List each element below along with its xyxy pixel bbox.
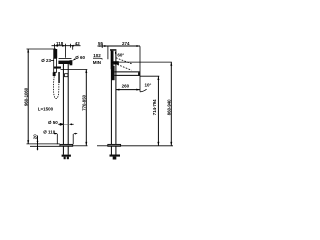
tick at x54.5 + ext to head — [54, 44, 56, 50]
holder bracket (dark) — [54, 67, 61, 69]
10 deg arc — [140, 89, 147, 92]
svg-text:Ø 50: Ø 50 — [48, 120, 58, 125]
arrow right of 118 / left outside of 42 — [62, 45, 66, 47]
top ext line at handshower head top — [27, 48, 57, 50]
column front view right edge — [67, 64, 69, 144]
ext line at holder level — [61, 69, 88, 71]
wall line — [107, 46, 109, 59]
arrow at x140 pointing right — [137, 45, 141, 47]
arrow 20 upper — [37, 141, 39, 144]
dashed ray lower — [112, 62, 132, 70]
column below floor — [62, 146, 64, 154]
svg-text:960-1060: 960-1060 — [23, 87, 28, 106]
column side view edges — [110, 51, 112, 145]
handshower head (dark) — [53, 49, 57, 58]
inlet fitting bar — [62, 155, 71, 157]
diverter rect on column — [65, 74, 68, 77]
leader diam23 — [51, 60, 54, 62]
arrow 960-1060 bottom — [27, 140, 29, 144]
spout root dark — [111, 66, 114, 80]
svg-text:Ø 23: Ø 23 — [41, 58, 51, 63]
hose connector below handle (dark) — [53, 72, 56, 76]
dim 860-940 line — [170, 62, 172, 145]
cap dark band — [58, 61, 72, 64]
column front view left edge — [62, 64, 64, 144]
diam110 right arrow — [73, 133, 76, 135]
dim line 960-1060 vertical — [27, 49, 29, 144]
top dimension line 118 / 42 — [52, 45, 81, 47]
hose tube along column (dark) — [58, 72, 60, 83]
inlet legs — [64, 157, 66, 160]
floor line right view — [97, 145, 108, 147]
svg-text:118: 118 — [56, 41, 64, 46]
bottom ext line at plate top — [27, 143, 60, 145]
arrow 770 top — [85, 70, 87, 74]
svg-text:714-794: 714-794 — [152, 99, 157, 115]
ext line plate left — [56, 134, 58, 144]
ext line at x72.7 — [72, 46, 74, 50]
dim 260 — [116, 89, 140, 91]
ext line spout outlet — [140, 75, 159, 77]
floor line right of plate (front view) — [73, 145, 88, 147]
svg-text:10°: 10° — [145, 83, 152, 88]
svg-text:MIN: MIN — [93, 60, 101, 65]
svg-text:20: 20 — [33, 134, 38, 139]
floor line left segment — [30, 145, 60, 147]
small arrow left outside tick — [99, 45, 102, 47]
lever knob (dark) — [114, 61, 119, 64]
side column top band — [110, 49, 116, 51]
ext line x140 — [139, 46, 141, 91]
svg-text:60°: 60° — [117, 53, 124, 58]
cap right block — [70, 60, 73, 65]
svg-text:Ø 60: Ø 60 — [75, 55, 85, 60]
svg-text:55: 55 — [98, 41, 104, 46]
svg-text:274: 274 — [122, 41, 130, 46]
svg-text:102: 102 — [93, 53, 101, 58]
base plate front view — [60, 144, 73, 146]
base plate side view — [108, 144, 121, 146]
spout tube bottom — [115, 74, 140, 76]
arrow outside right of 42 — [71, 45, 74, 47]
leader arrow diam60 — [72, 58, 76, 60]
ext line plate right — [72, 134, 74, 144]
cap top line — [59, 57, 72, 59]
svg-text:770-850: 770-850 — [82, 94, 87, 110]
arrow left of 118 — [55, 45, 59, 47]
dim 770-850 vertical line — [85, 70, 87, 146]
dim 714-794 line — [157, 77, 159, 146]
tick at x65.6 + ext to cap — [65, 44, 67, 58]
tick at x70.5 — [70, 44, 72, 48]
handshower handle outline — [54, 58, 57, 72]
tick 102.2 — [101, 44, 103, 48]
diam110 left arrow — [54, 133, 58, 135]
lever bar (dark) — [111, 51, 114, 70]
arrow 770 bottom — [85, 142, 87, 146]
hose dashed loop — [53, 76, 58, 98]
svg-text:L=1500: L=1500 — [38, 107, 54, 112]
svg-text:860-940: 860-940 — [167, 99, 172, 115]
top dim line 55/274 — [98, 45, 141, 47]
small arrow near 60 — [115, 52, 117, 55]
inlet fitting bar side — [110, 155, 121, 157]
dashed ray upper — [116, 58, 132, 64]
svg-text:260: 260 — [122, 83, 130, 88]
arrow at wall line pointing right — [104, 45, 108, 47]
leader diam50 left with arrow — [58, 123, 63, 125]
spout tip — [138, 72, 140, 75]
svg-text:42: 42 — [75, 41, 81, 46]
dim 20 vertical line — [37, 136, 39, 151]
ref line at knob level — [119, 61, 172, 63]
diam50 right arrow — [69, 123, 72, 125]
inlet leg side — [113, 157, 117, 160]
column below floor side — [110, 146, 112, 154]
spout tube top — [115, 71, 140, 73]
arrow 960-1060 top — [27, 49, 29, 53]
arrow 20 lower — [37, 146, 39, 149]
